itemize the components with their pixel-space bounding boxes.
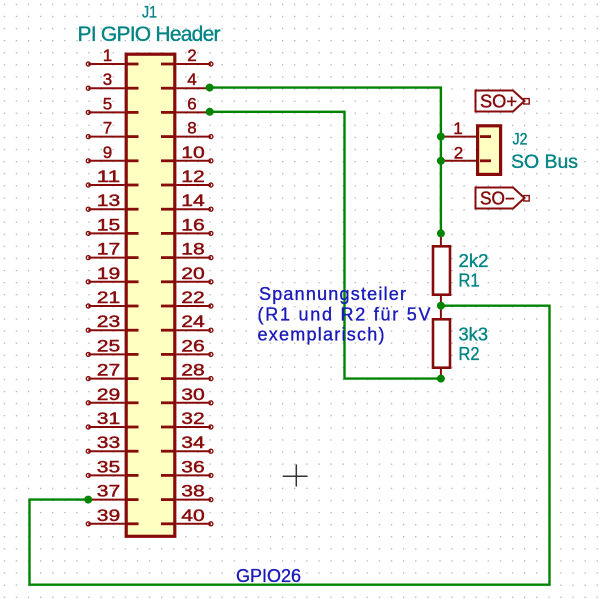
svg-text:2: 2 [454,143,463,162]
svg-text:15: 15 [97,215,121,234]
svg-text:2k2: 2k2 [459,250,489,271]
svg-text:14: 14 [181,191,205,210]
svg-text:19: 19 [97,264,121,283]
J1 pin 2 [161,46,213,66]
svg-text:J1: J1 [142,3,157,22]
J1 pin 6 [161,94,211,113]
J1 pin 1 [86,46,138,66]
resistor R1 [433,233,450,318]
svg-text:J2: J2 [513,130,528,149]
svg-text:SO+: SO+ [480,91,517,111]
svg-text:5: 5 [103,94,112,113]
svg-text:37: 37 [97,482,121,501]
J1 pin 10 [161,143,213,163]
svg-text:3k3: 3k3 [459,324,489,345]
svg-text:29: 29 [97,385,121,404]
junction J2 pin 1 [437,133,445,141]
svg-text:GPIO26: GPIO26 [236,566,301,586]
J1 pin 14 [161,191,213,211]
J1 pin 17 [86,240,138,260]
svg-text:39: 39 [97,506,121,525]
svg-text:40: 40 [181,506,205,525]
global label SO- [476,188,530,209]
J1 body [126,54,175,536]
J1 pin 15 [86,215,138,235]
svg-text:30: 30 [181,385,205,404]
J1 pin 38 [161,482,213,502]
svg-text:25: 25 [97,336,121,355]
svg-text:3: 3 [103,70,112,89]
svg-text:exemplarisch): exemplarisch) [258,325,385,345]
J1 pin 9 [86,143,138,163]
svg-text:6: 6 [187,94,196,113]
junction J1 pin 37 [84,496,92,504]
J1 pin 32 [161,409,213,429]
J1 pin 31 [86,409,138,429]
svg-text:Spannungsteiler: Spannungsteiler [259,284,406,304]
svg-text:26: 26 [181,336,205,355]
svg-text:10: 10 [181,143,205,162]
connector J2 [441,119,578,174]
svg-text:36: 36 [181,457,205,476]
svg-text:R2: R2 [459,343,480,364]
svg-text:31: 31 [97,409,121,428]
J2 pin 2 [441,160,477,162]
svg-text:16: 16 [181,215,205,234]
svg-text:7: 7 [103,119,112,138]
J1 pin 3 [86,70,138,90]
wire R1/R2 divider tap to J1 pin 37 (GPIO26 net) [30,306,550,585]
svg-text:20: 20 [181,264,205,283]
J1 pin 37 [88,482,138,501]
J1 pin 24 [161,312,213,332]
svg-text:PI GPIO Header: PI GPIO Header [78,23,221,46]
svg-text:32: 32 [181,409,205,428]
junction R1/R2 divider tap [437,302,445,310]
svg-text:SO Bus: SO Bus [511,151,578,173]
wire pin6 of J1 to bottom of R2 [210,112,441,379]
J1 pin 8 [161,119,213,139]
J1 pin 30 [161,385,213,405]
J1 pin 16 [161,215,213,235]
svg-text:8: 8 [187,119,196,138]
J1 pin 21 [86,288,138,308]
svg-text:1: 1 [103,46,112,65]
J1 pin 12 [161,167,213,187]
junction J1 pin 4 [206,84,214,92]
svg-text:4: 4 [187,70,196,89]
svg-text:SO−: SO− [480,188,515,208]
junction J1 pin 6 [206,108,214,116]
J1 pin 7 [86,119,138,139]
svg-text:9: 9 [103,143,112,162]
svg-text:34: 34 [181,433,205,452]
svg-text:18: 18 [181,240,205,259]
svg-text:28: 28 [181,361,205,380]
J1 pin 28 [161,361,213,381]
J1 pin 26 [161,336,213,356]
J1 pin 20 [161,264,213,284]
J1 pin 23 [86,312,138,332]
connector J1 [78,3,221,537]
J1 pin 22 [161,288,213,308]
J1 pin 35 [86,457,138,477]
J2 pin 1 [441,136,477,138]
global label SO+ [476,91,530,112]
svg-text:22: 22 [181,288,205,307]
J1 pin 18 [161,240,213,260]
J1 pin 36 [161,457,213,477]
cursor crosshair [283,464,308,486]
J1 pin 11 [86,167,138,187]
svg-text:35: 35 [97,457,121,476]
svg-text:21: 21 [97,288,121,307]
svg-text:2: 2 [187,46,196,65]
junction R2 bottom [437,375,445,383]
J1 pin 33 [86,433,138,453]
wire pin4 of J1 to J2/R1 net [210,88,441,234]
svg-text:(R1 und R2 für 5V: (R1 und R2 für 5V [258,304,431,324]
J1 pin 34 [161,433,213,453]
svg-text:38: 38 [181,482,205,501]
J1 pin 39 [86,506,138,526]
svg-text:17: 17 [97,240,121,259]
J1 pin 40 [161,506,213,526]
junction R1 top [437,229,445,237]
svg-text:11: 11 [97,167,121,186]
J2 body [478,126,501,175]
svg-text:23: 23 [97,312,121,331]
junction J2 pin 2 [437,157,445,165]
resistor R2 [433,319,450,378]
J1 pin 19 [86,264,138,284]
J1 pin 13 [86,191,138,211]
J1 pin 25 [86,336,138,356]
J1 pin 29 [86,385,138,405]
svg-text:27: 27 [97,361,121,380]
svg-text:33: 33 [97,433,121,452]
J1 pin 27 [86,361,138,381]
svg-text:24: 24 [181,312,205,331]
svg-text:13: 13 [97,191,121,210]
svg-text:1: 1 [453,119,462,138]
J1 pin 4 [161,70,211,89]
svg-text:12: 12 [181,167,205,186]
svg-text:R1: R1 [459,270,480,291]
J1 pin 5 [86,94,138,114]
